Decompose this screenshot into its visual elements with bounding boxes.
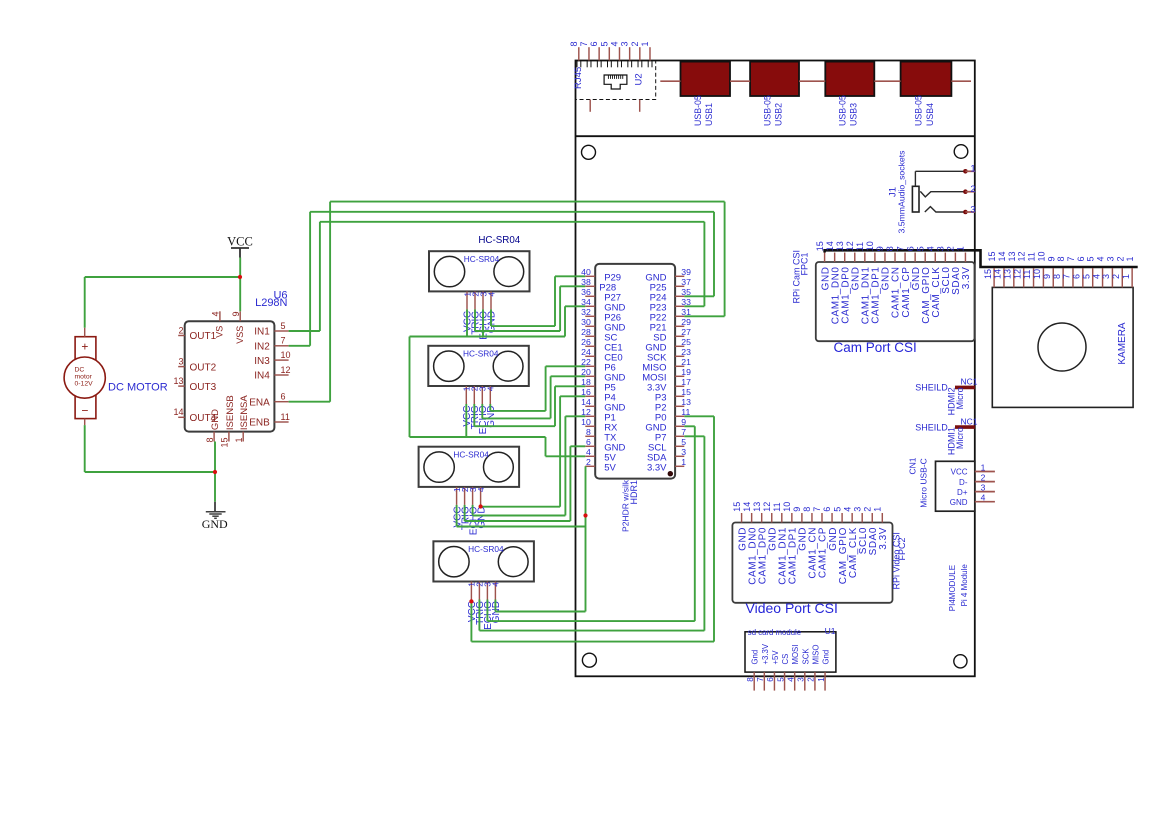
svg-text:HC-SR04: HC-SR04 [453,449,489,459]
wire sensor4 ECHO to pin9 [487,426,694,621]
wire sensor2 TRIG to pin18 [474,386,585,426]
svg-text:USB3: USB3 [849,103,859,126]
svg-text:GND: GND [476,506,487,528]
svg-text:5: 5 [776,677,785,682]
svg-text:10: 10 [782,502,792,512]
svg-text:HC-SR04: HC-SR04 [463,348,499,358]
svg-text:4: 4 [786,677,795,682]
camera FPC1 connector pin names [820,267,972,325]
board top-section divider [576,135,975,137]
svg-text:24: 24 [581,347,591,357]
svg-text:VCC: VCC [227,235,253,249]
camera module KAMERA body [992,287,1133,407]
svg-text:2: 2 [178,325,183,335]
svg-text:12: 12 [762,502,772,512]
svg-text:10: 10 [1036,251,1046,261]
svg-text:1: 1 [873,507,883,512]
svg-text:3: 3 [1105,256,1115,261]
svg-text:21: 21 [681,357,691,367]
svg-text:8: 8 [205,438,215,443]
wire IN1 to P23 pin33 [289,222,705,331]
L298N driver U6 body [185,321,275,431]
svg-text:15: 15 [987,251,997,261]
svg-text:2: 2 [1115,256,1125,261]
svg-text:8: 8 [1052,274,1062,279]
svg-text:2: 2 [630,41,640,46]
svg-text:29: 29 [681,317,691,327]
svg-text:3: 3 [852,507,862,512]
svg-text:RJ45: RJ45 [573,67,584,89]
svg-text:8: 8 [802,507,812,512]
HDR1 pin numbers [581,267,691,467]
svg-text:SHEILD: SHEILD [915,383,948,393]
svg-text:VS: VS [215,326,225,338]
svg-text:Micro: Micro [955,387,965,409]
HDR1 labels [621,479,639,532]
svg-text:USB-05: USB-05 [693,95,703,126]
video FPC2 connector pins [732,502,883,523]
svg-text:28: 28 [581,327,591,337]
HC-SR04 #2 pins [462,386,497,434]
svg-text:USB-05: USB-05 [914,95,924,126]
svg-text:5V: 5V [604,462,616,473]
svg-text:D-: D- [959,478,968,487]
ground symbol [202,472,228,531]
wire sensor1 VCC drop [466,309,468,336]
mounting hole top-left [582,145,596,159]
U2 pin numbers 8-1 [569,41,650,46]
svg-text:5: 5 [832,507,842,512]
HDR1 pin names [599,272,667,473]
U1 labels [748,626,836,637]
svg-text:ENA: ENA [249,397,270,408]
svg-text:−: − [81,404,88,418]
svg-text:37: 37 [681,277,691,287]
USB2 labels [762,95,783,126]
svg-text:36: 36 [581,287,591,297]
svg-text:3.5mmAudio_sockets: 3.5mmAudio_sockets [897,150,907,234]
mounting hole bottom-left [582,653,596,667]
svg-text:10: 10 [581,417,591,427]
J1 labels [888,150,907,234]
wire sensor2 ECHO to pin20 [482,376,585,418]
USB connector USB1 [681,62,731,96]
svg-text:12: 12 [1012,269,1022,279]
svg-text:6: 6 [766,677,775,682]
svg-text:6: 6 [905,246,915,251]
svg-text:4: 4 [586,447,591,457]
Pi4 module board outline [576,61,975,677]
junction 5V vertical [583,513,587,517]
svg-text:4: 4 [486,386,496,391]
svg-text:2: 2 [970,184,975,195]
PI4MODULE labels [948,564,969,612]
svg-text:USB1: USB1 [704,103,714,126]
junction VCC node [238,275,242,279]
svg-text:9: 9 [792,507,802,512]
svg-text:17: 17 [681,377,691,387]
HDR1 pin1 marker dot [668,471,673,476]
J1 pin numbers 1-3 [970,164,975,216]
svg-text:3: 3 [1101,274,1111,279]
svg-text:GND: GND [487,311,498,333]
svg-text:4: 4 [476,487,486,492]
wire sensor3 TRIG to pin6 [465,446,586,521]
wire VCC rail vertical [409,337,411,438]
svg-text:15: 15 [681,387,691,397]
svg-text:U1: U1 [825,626,836,636]
svg-text:14: 14 [997,251,1007,261]
svg-text:3: 3 [178,356,183,366]
svg-text:15: 15 [732,502,742,512]
svg-text:4: 4 [486,292,496,297]
svg-text:ISENSB: ISENSB [225,395,236,430]
CN1 labels [907,457,928,508]
svg-text:5: 5 [281,321,286,331]
micro HDMI connector HDMI1 [915,416,977,455]
svg-text:HC-SR04: HC-SR04 [464,254,500,264]
USB connector USB2 [750,62,799,96]
svg-text:8: 8 [586,427,591,437]
svg-text:11: 11 [855,242,865,251]
svg-text:NC1: NC1 [961,416,978,426]
camera FPC1 connector reference labels [792,250,810,304]
svg-text:7: 7 [812,507,822,512]
svg-text:Video Port CSI: Video Port CSI [746,600,838,616]
wire sensor4 GND to 5V [495,600,585,612]
svg-text:32: 32 [581,307,591,317]
svg-text:4: 4 [981,493,986,503]
svg-text:4: 4 [842,507,852,512]
svg-text:1: 1 [1121,274,1131,279]
svg-text:GND: GND [210,409,221,430]
svg-text:2: 2 [807,677,816,682]
U6 top pins VS VSS [211,311,245,343]
svg-text:USB-05: USB-05 [838,95,848,126]
USB connector USB3 [825,62,874,96]
USB interconnect wire [660,80,971,82]
wire sensor3 ECHO to pin12 [473,416,586,515]
svg-text:11: 11 [772,502,782,511]
svg-text:CS: CS [781,654,790,665]
svg-text:14: 14 [742,502,752,512]
svg-text:3: 3 [620,41,630,46]
RJ45 jack symbol [604,75,627,89]
svg-text:8: 8 [885,246,895,251]
svg-text:+5V: +5V [771,650,780,665]
40-pin header HDR1 body [595,264,675,479]
svg-text:OUT3: OUT3 [190,382,217,393]
U2 bottom stub pins [590,100,640,112]
wire motor- to GND [85,425,215,472]
svg-text:9: 9 [1046,256,1056,261]
svg-text:1: 1 [956,246,966,251]
svg-text:1: 1 [1125,256,1135,261]
svg-text:3: 3 [970,204,975,215]
svg-text:7: 7 [756,677,765,682]
wire sensor2 VCC drop [465,404,467,437]
svg-text:1: 1 [234,438,244,443]
micro HDMI connector HDMI2 [915,377,977,416]
svg-text:14: 14 [173,407,183,417]
svg-text:HDR1: HDR1 [629,480,639,505]
svg-text:Gnd: Gnd [751,650,760,665]
U6 right pins IN1-IN4 ENA ENB [249,321,290,429]
svg-text:1: 1 [981,462,986,472]
svg-text:Gnd: Gnd [822,650,831,665]
svg-text:15: 15 [220,438,230,448]
svg-text:23: 23 [681,347,691,357]
svg-text:7: 7 [895,246,905,251]
svg-text:2: 2 [586,457,591,467]
VCC power symbol [227,235,253,258]
wire sensor1 TRIG to pin38 [475,286,585,331]
KAMERA pins [983,268,1132,287]
svg-text:4: 4 [609,41,619,46]
svg-text:CN1: CN1 [907,457,917,474]
svg-text:6: 6 [822,507,832,512]
svg-text:4: 4 [1091,274,1101,279]
svg-text:sd card module: sd card module [748,628,801,637]
svg-text:9: 9 [231,311,241,316]
svg-text:OUT1: OUT1 [190,331,217,342]
wire pin2 5V vertical [585,466,587,611]
U6 bottom pins GND ISENSB ISENSA [205,395,250,448]
svg-text:FPC1: FPC1 [799,252,809,275]
svg-text:12: 12 [1017,251,1027,261]
wire sensor1 ECHO stub [482,309,484,336]
svg-text:3: 3 [797,677,806,682]
USB4 labels [914,95,935,126]
svg-text:13: 13 [752,502,762,512]
svg-text:19: 19 [681,367,691,377]
svg-text:10: 10 [1032,269,1042,279]
svg-text:26: 26 [581,337,591,347]
video FPC2 connector reference labels [891,532,907,589]
svg-text:GND: GND [202,517,228,531]
svg-text:3.3V: 3.3V [878,527,889,550]
HC-SR04 #1 pins [462,291,497,339]
svg-text:4: 4 [491,582,501,587]
wire VCC to VSS [239,258,241,312]
svg-text:ISENSA: ISENSA [239,395,250,431]
svg-text:6: 6 [1072,274,1082,279]
wire sensor3 GND to pin16 [481,396,586,506]
wire IN2 to P24 pin35 [289,212,714,346]
svg-text:USB4: USB4 [925,103,935,126]
svg-text:9: 9 [875,246,885,251]
USB connector USB4 [901,62,952,96]
camera ribbon bus wire [825,250,1138,267]
U6 reference labels [255,290,287,310]
svg-text:12: 12 [845,241,855,251]
ultrasonic sensor HC-SR04 #2 [428,346,529,386]
svg-text:U2: U2 [633,73,644,85]
svg-text:7: 7 [281,336,286,346]
camera FPC1 connector body [816,262,975,341]
mounting hole top-right [954,145,968,159]
svg-text:14: 14 [581,397,591,407]
svg-text:MOSI: MOSI [791,645,800,665]
svg-text:NC1: NC1 [961,377,978,387]
svg-text:30: 30 [581,317,591,327]
wire sensor1 VCC rail to pin34 [410,306,586,336]
svg-text:1: 1 [817,677,826,682]
junction sensor3 GND [479,504,483,508]
svg-text:SHEILD: SHEILD [915,422,948,432]
svg-text:SCK: SCK [801,648,810,665]
camera bus entry numbers [987,251,1135,261]
svg-text:13: 13 [681,397,691,407]
U6 left pins OUT1-OUT4 [173,325,216,424]
svg-text:5: 5 [1081,274,1091,279]
svg-text:MISO: MISO [811,645,820,665]
svg-text:3.3V: 3.3V [647,462,667,473]
wire VCC to motor+ [85,277,240,328]
svg-text:6: 6 [281,392,286,402]
svg-text:5: 5 [1086,256,1096,261]
svg-text:IN1: IN1 [254,327,270,338]
ultrasonic sensor HC-SR04 #4 [433,541,534,581]
DC motor M1 [64,328,105,425]
svg-text:3: 3 [981,482,986,492]
svg-text:VSS: VSS [235,326,245,344]
svg-text:10: 10 [865,241,875,251]
mounting hole bottom-right [954,655,967,668]
video FPC2 connector pin names [737,527,889,585]
svg-text:Pi 4 Module: Pi 4 Module [960,564,969,607]
svg-text:Micro: Micro [955,427,965,449]
svg-text:6: 6 [589,41,599,46]
RJ45 connector U2 body and pins [576,47,656,99]
svg-text:PI4MODULE: PI4MODULE [948,565,957,611]
svg-text:GND: GND [486,406,497,428]
svg-text:13: 13 [173,376,183,386]
svg-text:5: 5 [915,246,925,251]
svg-text:2: 2 [946,246,956,251]
svg-text:Micro USB-C: Micro USB-C [919,458,929,508]
svg-text:27: 27 [681,327,691,337]
wire sensor4 VCC to pin11 [471,416,714,641]
svg-text:1: 1 [681,457,686,467]
svg-text:HC-SR04: HC-SR04 [478,235,520,246]
svg-text:13: 13 [835,241,845,251]
svg-text:KAMERA: KAMERA [1117,322,1128,365]
svg-text:USB2: USB2 [773,103,783,126]
HDR1 pin stubs [585,276,684,466]
svg-text:4: 4 [1096,256,1106,261]
svg-text:Cam Port CSI: Cam Port CSI [834,340,917,355]
svg-text:3.3V: 3.3V [961,267,972,290]
svg-text:14: 14 [993,269,1003,279]
svg-text:4: 4 [211,311,221,316]
svg-text:7: 7 [1062,274,1072,279]
svg-text:10: 10 [281,350,291,360]
USB3 labels [838,95,859,126]
svg-text:8: 8 [569,41,579,46]
sd card module U1 [745,632,836,691]
svg-text:ENB: ENB [249,418,270,429]
svg-text:2: 2 [981,472,986,482]
svg-text:1: 1 [970,164,975,175]
svg-text:DC MOTOR: DC MOTOR [108,382,168,394]
svg-text:39: 39 [681,267,691,277]
svg-text:8: 8 [746,677,755,682]
3.5mm audio socket J1 [912,169,975,214]
svg-text:6: 6 [1076,256,1086,261]
wire sensor1 GND to pin40 [491,276,585,326]
micro USB-C connector CN1 [936,461,995,511]
wire ENA to P22 pin31 [289,202,725,402]
svg-text:USB-05: USB-05 [762,95,772,126]
video FPC2 connector body [732,523,892,603]
KAMERA lens circle [1038,323,1086,371]
svg-text:14: 14 [825,241,835,251]
svg-text:D+: D+ [957,488,968,497]
svg-text:11: 11 [1022,270,1032,279]
svg-text:1: 1 [640,41,650,46]
svg-text:2: 2 [862,507,872,512]
svg-text:2: 2 [1111,274,1121,279]
USB1 labels [693,95,714,126]
svg-text:8: 8 [1056,256,1066,261]
svg-text:FPC2: FPC2 [897,537,907,560]
svg-text:L298N: L298N [255,297,287,309]
svg-text:11: 11 [1027,252,1037,261]
svg-text:7: 7 [579,41,589,46]
svg-text:IN3: IN3 [254,356,270,367]
svg-text:GND: GND [950,498,968,507]
wire sensor2 GND to pin22 [490,366,585,411]
svg-text:13: 13 [1003,269,1013,279]
ultrasonic sensor HC-SR04 #1 [429,251,530,291]
svg-text:5: 5 [681,437,686,447]
svg-text:+3.3V: +3.3V [761,643,770,664]
camera FPC1 connector pins [815,241,966,262]
svg-text:6: 6 [586,437,591,447]
wire sensor2 VCC rail to pin4 [410,437,586,456]
junction GND node [213,470,217,474]
svg-text:11: 11 [281,412,290,422]
svg-text:VCC: VCC [951,468,968,477]
svg-text:13: 13 [1007,251,1017,261]
wire sensor4 TRIG to pin7 [479,436,704,630]
svg-text:5: 5 [599,41,609,46]
svg-text:+: + [81,340,88,354]
svg-text:4: 4 [925,246,935,251]
ultrasonic sensor HC-SR04 #3 [419,447,519,487]
svg-text:0-12V: 0-12V [75,380,94,387]
svg-text:HC-SR04: HC-SR04 [468,544,504,554]
svg-text:7: 7 [1066,256,1076,261]
svg-text:3: 3 [681,447,686,457]
svg-text:9: 9 [1042,274,1052,279]
svg-text:OUT2: OUT2 [190,362,217,373]
wire sensor3 VCC to 5V [457,505,586,527]
svg-text:IN4: IN4 [254,371,270,382]
svg-text:25: 25 [681,337,691,347]
svg-text:3: 3 [936,246,946,251]
svg-text:IN2: IN2 [254,342,270,353]
junction sensor4 VCC [469,599,473,603]
svg-text:15: 15 [815,241,825,251]
HC-SR04 #4 pins [467,582,502,630]
HC-SR04 #3 pins [452,487,487,535]
svg-text:15: 15 [983,269,993,279]
svg-text:12: 12 [281,365,291,375]
